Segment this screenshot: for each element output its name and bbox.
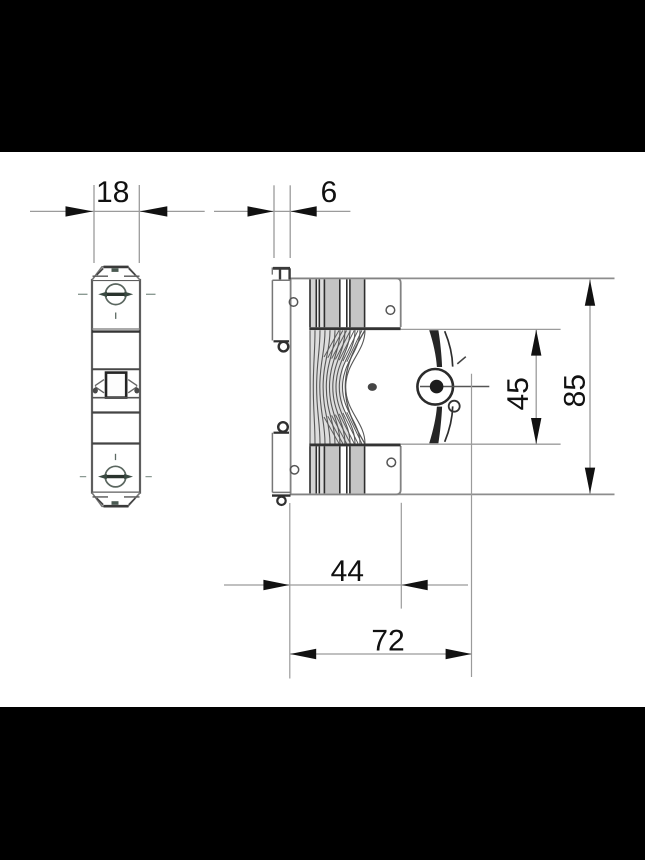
bottom cap bottom bar <box>104 505 129 508</box>
dim 85 line <box>589 279 591 494</box>
dim 6 dimension line <box>214 210 350 212</box>
dim 45 arrow top <box>531 330 541 356</box>
dim 18 arrow left <box>66 206 94 216</box>
pivot outer circle <box>417 369 453 405</box>
dim 72 dimension line <box>290 653 472 655</box>
dim 45 arrow bottom <box>531 418 541 444</box>
top cap <box>92 267 140 280</box>
top terminal screw <box>98 284 133 305</box>
toggle centerline <box>420 386 489 388</box>
bottom band top thick line <box>309 443 400 446</box>
dim 85 arrow top <box>585 280 595 306</box>
band line 5 <box>92 442 140 444</box>
band line 3 <box>92 397 140 399</box>
top rib band fills <box>310 279 316 327</box>
body outline <box>291 278 401 495</box>
face top line + 45 top extension <box>401 328 561 330</box>
dim 6 extension line right <box>289 185 291 258</box>
breaker front body outline <box>92 280 140 493</box>
body hole bottom-left <box>290 466 298 474</box>
arc boundary of recess <box>345 331 365 444</box>
dim 18 label <box>98 181 128 202</box>
dim 6 arrow right <box>291 206 317 216</box>
bottom center dash <box>115 454 117 460</box>
dim 85 arrow bottom <box>585 468 595 494</box>
right pole clip <box>128 380 137 393</box>
pivot dot <box>430 380 444 394</box>
bottom cap corner marks <box>97 498 135 505</box>
top screw centerline dashes <box>78 293 156 295</box>
dim 44 arrow left <box>263 580 289 590</box>
toggle lever upper blade <box>429 330 442 367</box>
DIN clip bottom tab hook <box>278 422 288 432</box>
dim 18 extension line right <box>138 185 140 263</box>
dim 6 extension line left <box>273 185 275 258</box>
DIN clip bottom hook <box>272 494 291 496</box>
toggle <box>106 373 126 398</box>
toggle lever upper outline <box>445 331 453 366</box>
dim 85 label <box>564 375 585 406</box>
top rib band lines <box>310 279 365 327</box>
dim 6 label <box>322 181 336 202</box>
bottom terminal screw <box>98 466 133 487</box>
face bottom line + 45 bottom extension <box>401 443 561 445</box>
body top edge + 85 top extension <box>291 277 615 279</box>
DIN clip top tab hook <box>274 340 290 342</box>
top cap center blob <box>112 268 119 272</box>
travel tick <box>457 357 466 364</box>
bottom cap center blob <box>112 501 119 505</box>
dim 72 arrow left <box>290 649 316 659</box>
band line 4 <box>92 411 140 413</box>
dim 6 arrow left <box>248 206 274 216</box>
top cap side ledges <box>93 275 140 277</box>
DIN clip top tab <box>272 280 290 340</box>
dim 18 dimension line <box>30 210 205 212</box>
dim 72 arrow right <box>446 649 472 659</box>
wavy rib section gray fill <box>310 330 353 444</box>
dim 72 label <box>373 630 403 651</box>
body hole top-right <box>386 306 395 315</box>
top cap corner marks <box>97 268 135 275</box>
top band bottom thick line <box>309 327 400 330</box>
corner hatch top <box>324 331 362 444</box>
dim 45 line <box>535 329 537 444</box>
extension line from toggle center down <box>471 374 473 677</box>
bottom cap side ledges <box>93 496 140 498</box>
dim 44 dimension line <box>224 584 468 586</box>
band line 2 <box>92 368 140 370</box>
toggle lever lower blade <box>429 407 442 444</box>
top cap top bar <box>104 266 129 269</box>
dim 44 extension line left <box>289 503 291 679</box>
bottom rib band fills <box>310 446 316 493</box>
dim 18 arrow right <box>140 206 168 216</box>
dim 18 extension line left <box>93 185 95 263</box>
band line 1 <box>92 328 140 330</box>
label dot <box>368 383 377 391</box>
toggle lever lower outline <box>445 406 453 441</box>
dim 45 label <box>507 378 528 409</box>
body hole top-left <box>289 298 297 306</box>
dim 44 label <box>331 560 363 581</box>
top center dash <box>115 313 117 319</box>
left pole clip <box>95 380 104 393</box>
DIN clip bottom tab <box>272 433 290 493</box>
body bottom edge + 85 bottom extension <box>291 493 615 495</box>
small detail circle <box>449 401 460 412</box>
bottom cap <box>92 493 140 507</box>
body hole bottom-right <box>387 458 396 467</box>
dim 44 extension line right <box>400 503 402 609</box>
wavy rib curves <box>310 330 365 444</box>
DIN clip top hook <box>271 267 273 274</box>
bottom screw centerline dashes <box>80 476 152 478</box>
dim 44 arrow right <box>402 580 428 590</box>
bottom rib band lines <box>310 446 365 493</box>
